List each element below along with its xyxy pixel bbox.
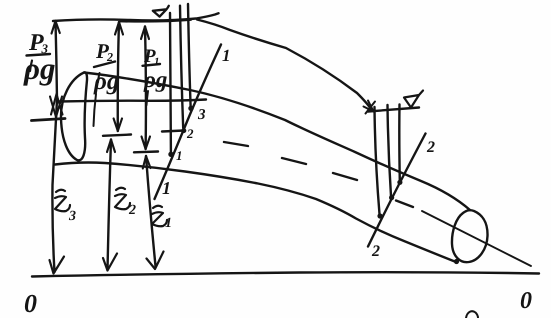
label 0 left (25, 295, 37, 313)
free-surface symbol (nabla) section 2 (404, 91, 423, 108)
node 2 (point 2 on section 1-1) (181, 128, 186, 133)
point-1 level tick (134, 150, 158, 153)
node 1 (point 1 on section 1-1) (168, 152, 173, 157)
dimension line z2 (108, 140, 112, 271)
label 1 (top of section 1-1) (222, 50, 228, 61)
water-level line at section 2 tubes (368, 108, 419, 112)
piezometer tube 3 (section 1) (188, 4, 191, 106)
node on section 2-2 middle (389, 195, 394, 200)
node on section 2-2 upper (397, 180, 402, 185)
arrowhead up (z1 top) (143, 156, 151, 169)
label z2 (115, 188, 136, 214)
label 2 (bottom of section 2-2) (372, 245, 380, 256)
label z3 (55, 190, 76, 220)
piezometer tube 1 (section 1) (169, 13, 172, 152)
arrowhead of piezometric line (364, 101, 376, 114)
pipe bottom wall (55, 163, 456, 263)
dimension line P2 (118, 22, 119, 131)
point-2 level tick left (103, 135, 131, 136)
dimension line z1 (146, 156, 156, 266)
pipe outlet ellipse (exit cross-section) (452, 210, 488, 262)
datum line 0-0 (32, 272, 539, 276)
arrowhead down (P1 bottom) (142, 137, 151, 150)
arrowhead up (z2 top) (107, 140, 115, 153)
arrowhead up (P1 top) (141, 27, 149, 40)
arrowhead down (z1 bottom) (147, 252, 164, 270)
section line 2-2 (368, 134, 426, 247)
arrowhead down (z2 bottom) (103, 254, 117, 271)
arrowhead up (P3 top) (52, 21, 60, 34)
dimension line P1 (144, 27, 147, 150)
piezometer tube 3 (section 2) (398, 105, 401, 182)
vertical dimension line P3/z3 (52, 21, 57, 272)
rho descender tail (P2 denom) (94, 94, 97, 126)
rho ascender stroke (P2 denom) (98, 73, 100, 82)
label 1 (bottom of section 1-1) (162, 182, 169, 194)
label 0 right (521, 292, 532, 308)
rho descender tail (P1 denom) (147, 91, 149, 105)
label P2 over rho-g (96, 44, 109, 58)
arrowhead down (P2 bottom) (114, 119, 122, 132)
pipe axis dash 3 (333, 173, 357, 180)
wire overdraw on level line (120, 20, 191, 22)
piezometric water-level line (section 1) (53, 13, 219, 21)
pen blob at outlet bottom (454, 259, 459, 264)
arrowhead down (z3 bottom) (50, 257, 65, 274)
piezometer tube 1 (section 2) (375, 107, 380, 214)
pipe axis dash 2 (282, 158, 306, 164)
pipe axis extension line (422, 211, 531, 266)
label P3 over rho-g (29, 34, 44, 50)
node 3 (point 3 on section 1-1) (188, 106, 193, 111)
piezometer tube 2 (section 2) (388, 105, 392, 196)
point-2 level tick right (162, 131, 184, 132)
label z1 (152, 206, 171, 227)
free-surface symbol (nabla) section 1 (153, 6, 169, 17)
arrowhead up (P2 top) (115, 22, 123, 35)
pipe top wall (84, 73, 470, 211)
pipe inlet bell (entrance cross-section) (61, 72, 87, 160)
pipe axis dash 4 (396, 201, 413, 208)
piezometer tube 2 (section 1) (180, 6, 183, 128)
pipe axis dash 1 (224, 142, 248, 146)
point-3 level line left (32, 119, 66, 121)
node on section 2-2 lower (377, 213, 382, 218)
stray pen mark bottom edge (466, 311, 478, 318)
label 2 (top of section 2-2) (427, 141, 435, 152)
label P1 over rho-g (144, 50, 156, 62)
rho ascender stroke (P3 denom) (30, 61, 32, 72)
piezometric line descending to section 2 (197, 20, 371, 110)
section line 1-1 (155, 45, 222, 200)
crossed arrowheads at point-3 level (50, 94, 63, 117)
point-3 level line right (59, 100, 206, 102)
